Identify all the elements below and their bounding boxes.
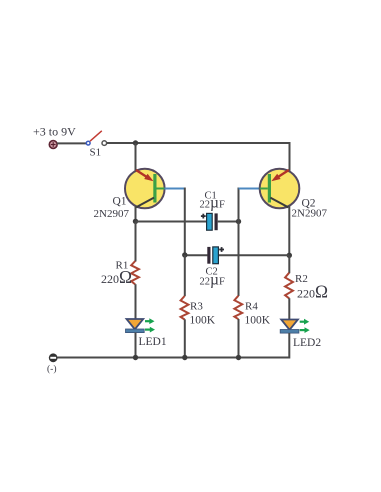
wire C1 right bbox=[218, 221, 239, 223]
junction Q2 collector node bbox=[287, 253, 292, 258]
wire LED1 to ground rail bbox=[135, 333, 137, 358]
svg-text:R3: R3 bbox=[190, 301, 203, 313]
junction ground rail at R3 bbox=[182, 355, 187, 360]
wire Q1 base lead blue bbox=[165, 188, 185, 190]
junction C1 to Q2 base node bbox=[236, 219, 241, 224]
wire C2 right bbox=[218, 254, 289, 256]
svg-text:+3 to 9V: +3 to 9V bbox=[33, 125, 76, 139]
transistor Q2 bbox=[260, 169, 300, 209]
wire R2 feed bbox=[288, 255, 290, 273]
svg-text:S1: S1 bbox=[90, 147, 102, 159]
wire R3 to ground rail bbox=[184, 319, 186, 357]
svg-text:2N2907: 2N2907 bbox=[94, 208, 130, 220]
wire R4 to ground rail bbox=[238, 319, 240, 358]
svg-text:LED2: LED2 bbox=[293, 337, 321, 349]
wire Q1 collector bbox=[135, 206, 137, 222]
resistor R4 bbox=[234, 296, 242, 320]
LED LED1 bbox=[126, 318, 156, 332]
resistor R3 bbox=[181, 296, 189, 320]
svg-text:Q1: Q1 bbox=[113, 196, 127, 208]
wire Q2 collector bbox=[288, 206, 290, 256]
svg-text:100K: 100K bbox=[245, 315, 271, 327]
wire R4 feed bbox=[238, 222, 240, 297]
junction top rail at Q1 emitter bbox=[133, 140, 138, 145]
svg-text:2N2907: 2N2907 bbox=[292, 208, 328, 220]
wire R2 to LED2 bbox=[288, 298, 290, 320]
LED LED2 bbox=[280, 319, 310, 333]
wire Q2 base down segment bbox=[238, 188, 240, 222]
resistor R1 bbox=[131, 261, 139, 284]
wire R1 to LED1 bbox=[135, 284, 137, 319]
battery negative terminal bbox=[49, 353, 58, 362]
capacitor C1 bbox=[201, 213, 218, 230]
svg-text:R4: R4 bbox=[245, 301, 258, 313]
wire R3 feed bbox=[184, 255, 186, 296]
wire Q1 base down to C2 node bbox=[184, 188, 186, 256]
junction ground rail at LED1 bbox=[133, 355, 138, 360]
junction Q1 collector node bbox=[133, 219, 138, 224]
wire R1 feed bbox=[135, 222, 137, 262]
svg-text:R2: R2 bbox=[295, 273, 308, 285]
wire C2 left bbox=[185, 254, 208, 256]
battery positive terminal bbox=[49, 141, 57, 149]
svg-text:100K: 100K bbox=[190, 315, 216, 327]
junction C2 to Q1 base node bbox=[182, 252, 187, 257]
wire Q1 emitter feed bbox=[135, 143, 137, 171]
svg-text:(-): (-) bbox=[47, 364, 57, 375]
junction ground rail at R4 bbox=[236, 355, 241, 360]
transistor Q1 bbox=[125, 169, 165, 209]
resistor R2 bbox=[285, 273, 293, 299]
capacitor C2 bbox=[207, 247, 224, 264]
wire LED2 to ground rail corner bbox=[58, 333, 290, 358]
wire Q2 base lead blue bbox=[239, 188, 260, 190]
wire battery to S1 bbox=[57, 142, 86, 144]
switch S1 bbox=[86, 131, 106, 146]
wire C1 left bbox=[136, 221, 208, 223]
svg-text:LED1: LED1 bbox=[139, 336, 167, 348]
wire top rail bbox=[107, 143, 290, 171]
